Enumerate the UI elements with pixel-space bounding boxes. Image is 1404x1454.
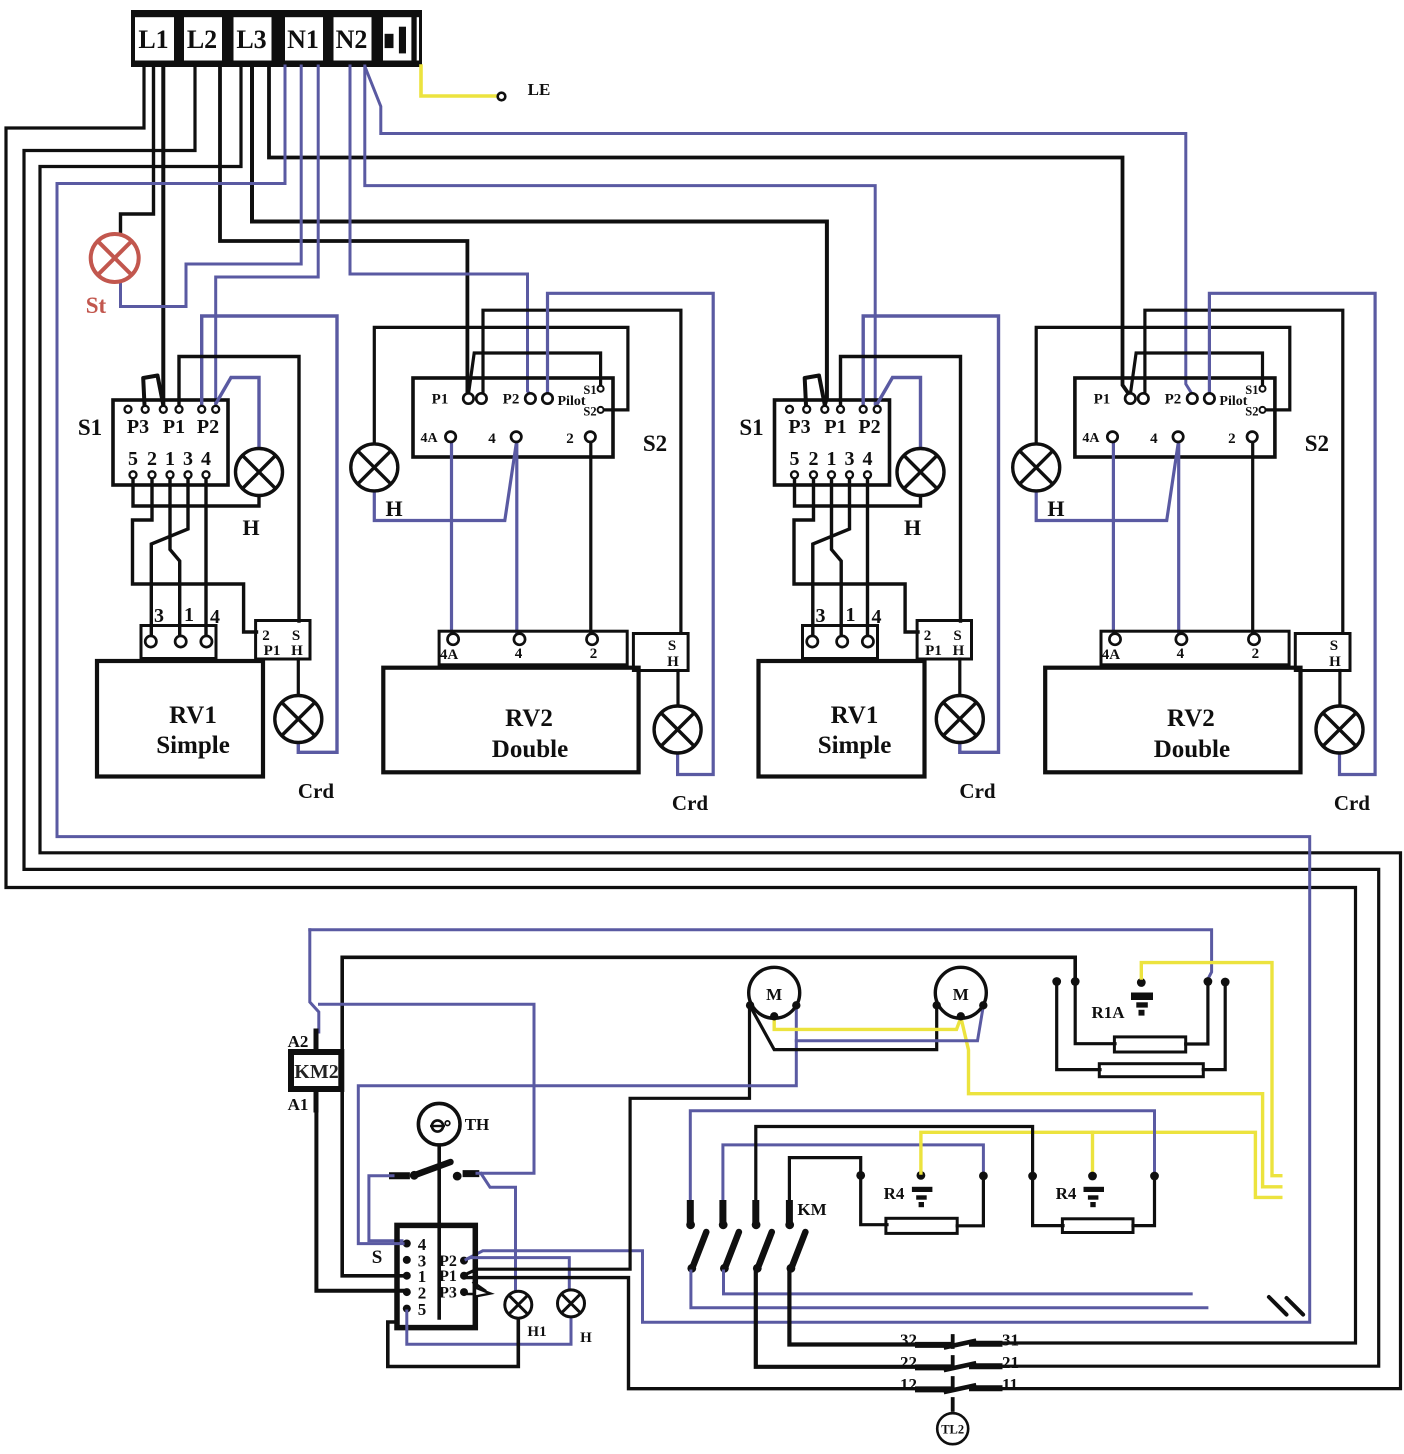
wire 4 to strip (right S2 group)	[1177, 442, 1180, 634]
svg-text:S1: S1	[78, 415, 102, 440]
svg-text:Crd: Crd	[672, 791, 708, 815]
wire S2 pin S2 to lamp H (right S2 group)	[1036, 327, 1290, 443]
wire R4 second left dot to resistor	[1033, 1179, 1063, 1226]
box S/H (left S2 group)	[633, 634, 688, 671]
strip terminal 1 (left S1 group)	[175, 636, 186, 647]
wire R1A left terminal 2 to resistor	[1075, 983, 1115, 1044]
S-box terminal 3	[403, 1256, 411, 1264]
wire TH right contact to A2 (blue)	[320, 1004, 535, 1173]
KM pole 3 fixed contact	[752, 1204, 759, 1221]
svg-text:H: H	[291, 643, 303, 659]
svg-text:S2: S2	[583, 405, 596, 419]
wire lamp H1 bottom loop	[388, 1318, 519, 1367]
terminal P2b of S1 (left S1 group)	[212, 406, 219, 413]
svg-text:4A: 4A	[440, 647, 459, 663]
wire R4 right dot to resistor	[957, 1178, 983, 1226]
wire 2 to strip (left S2 group)	[589, 442, 592, 634]
KM pole 4 lower dot	[787, 1264, 796, 1273]
wire R4 second right dot to resistor	[1133, 1179, 1155, 1226]
terminal 4 of S1 (left S1 group)	[203, 471, 210, 478]
R4 second right dot	[1150, 1172, 1159, 1181]
svg-text:M: M	[766, 985, 782, 1004]
wire L3 to second S1 P1	[252, 66, 827, 405]
svg-text:1: 1	[827, 448, 837, 470]
lamp Crd (right S1 group)	[936, 696, 983, 743]
pin S1 of S2 (right S2 group)	[1260, 386, 1266, 392]
terminal 4 of S2 (left S2 group)	[511, 432, 521, 442]
svg-text:4: 4	[488, 431, 496, 447]
motor M2 terminals	[933, 1001, 941, 1009]
svg-text:5: 5	[418, 1300, 427, 1319]
lamp H (right S1 group)	[897, 449, 944, 496]
terminal L1 cell	[135, 17, 174, 60]
terminal N1 cell	[285, 17, 323, 60]
resistor R1A lower	[1099, 1064, 1203, 1077]
switch S2 box (left S2 group)	[413, 378, 613, 457]
wire TH stem / S-box divider	[437, 1145, 441, 1318]
svg-text:P3: P3	[127, 416, 149, 438]
svg-text:S2: S2	[1245, 405, 1258, 419]
wire M2 right to M1 right (blue)	[796, 1006, 983, 1041]
svg-text:1: 1	[846, 604, 856, 626]
svg-text:3: 3	[816, 605, 826, 627]
wire KM pole1 to R4 second right (blue)	[690, 1111, 1154, 1203]
wire A2 feed (blue loop from TH switch)	[310, 930, 319, 1032]
svg-text:4A: 4A	[420, 431, 438, 446]
svg-text:Crd: Crd	[298, 779, 334, 803]
strip terminal 4A (right S2 group)	[1109, 634, 1120, 645]
R4 second ground dot	[1088, 1172, 1097, 1181]
wire L1 to S1 P1 (left)	[161, 66, 165, 404]
terminal P3b of S1 (right S1 group)	[803, 406, 810, 413]
ground symbol R4 first	[912, 1187, 933, 1192]
svg-text:Simple: Simple	[818, 732, 892, 759]
terminal 3 of S1 (left S1 group)	[185, 471, 192, 478]
motor M1 terminals	[746, 1001, 754, 1009]
connector strip 4A-4-2 (left S2 group)	[439, 631, 627, 665]
svg-text:P2: P2	[503, 392, 520, 408]
TH lever	[414, 1162, 450, 1175]
wire R1A ground to yellow stub (yellow)	[1141, 963, 1281, 1176]
svg-text:TL2: TL2	[941, 1423, 964, 1437]
svg-text:P2: P2	[858, 416, 880, 438]
svg-text:S: S	[292, 628, 300, 644]
svg-text:4: 4	[201, 448, 211, 470]
contact bar TH left	[393, 1172, 407, 1179]
svg-text:Double: Double	[1154, 736, 1230, 763]
svg-text:H: H	[242, 515, 259, 540]
svg-text:RV2: RV2	[505, 705, 553, 732]
svg-text:TH: TH	[465, 1115, 490, 1134]
KM pole 2 upper dot	[719, 1220, 728, 1229]
pin S1 of S2 (left S2 group)	[598, 386, 604, 392]
box RV2 Double (right S2 group)	[1045, 668, 1300, 773]
terminal P3b of S1 (left S1 group)	[142, 406, 149, 413]
KM pole 2 fixed contact	[719, 1204, 726, 1221]
wire terminal 1 to strip 1 (left S1 group)	[170, 478, 180, 636]
svg-text:P1: P1	[432, 392, 449, 408]
svg-text:S1: S1	[1245, 383, 1258, 397]
KM pole 4 upper dot	[785, 1220, 794, 1229]
wire N2 to second S1 P2 right	[365, 66, 875, 404]
terminal 5 of S1 (right S1 group)	[791, 471, 798, 478]
svg-text:R4: R4	[884, 1184, 905, 1203]
box 2/P1 S/H (right S1 group)	[917, 621, 971, 660]
svg-text:L1: L1	[138, 25, 168, 54]
wire N1 to S1 P2 right	[216, 66, 319, 404]
terminal P3a of S1 (left S1 group)	[125, 406, 132, 413]
box 2/P1 S/H (left S1 group)	[256, 621, 310, 660]
strip terminal 3 (right S1 group)	[807, 636, 818, 647]
R4 first ground dot	[917, 1171, 926, 1180]
terminal 4 of S2 (right S2 group)	[1173, 432, 1183, 442]
svg-text:Crd: Crd	[959, 779, 995, 803]
wire TH left contact to S-box 4 (blue)	[369, 1176, 402, 1241]
S-box terminal 5	[403, 1305, 411, 1313]
svg-text:KM2: KM2	[294, 1061, 338, 1083]
KM pole 1 lower dot	[687, 1264, 696, 1273]
wire A1 to S-box terminal 2	[316, 1108, 403, 1291]
terminal P2a of S2 (right S2 group)	[1187, 393, 1197, 403]
strip terminal 4 (left S2 group)	[514, 634, 525, 645]
wire N2 diagonal to second S2 P2	[366, 68, 1192, 394]
wire KM pole1 lower (blue stub)	[691, 1271, 1207, 1308]
break marks	[1269, 1297, 1303, 1315]
resistor R4 first	[886, 1218, 957, 1233]
svg-text:P1: P1	[925, 643, 942, 659]
wire motor M1 left to M2 left	[750, 1006, 937, 1050]
S-box terminal 2	[403, 1288, 411, 1296]
svg-text:2: 2	[1252, 646, 1260, 662]
svg-text:2: 2	[809, 448, 819, 470]
terminal A2 stub	[314, 1031, 319, 1052]
TL2 dashed link	[951, 1336, 955, 1412]
svg-text:P1: P1	[824, 416, 846, 438]
wire R4 right terminal (blue riser)	[723, 1145, 984, 1203]
strip terminal 3 (left S1 group)	[145, 636, 156, 647]
terminal P1a of S1 (left S1 group)	[160, 406, 167, 413]
svg-text:4: 4	[1150, 431, 1158, 447]
bridge link P3 to P1 (left S1 group)	[143, 376, 163, 406]
svg-text:P1: P1	[163, 416, 185, 438]
svg-text:Pilot: Pilot	[558, 394, 586, 409]
svg-text:4: 4	[863, 448, 873, 470]
terminal 5 of S1 (left S1 group)	[130, 471, 137, 478]
svg-text:3: 3	[845, 448, 855, 470]
box RV1 Simple (left S1 group)	[97, 661, 263, 777]
wire Pilot to Crd lamp (blue) (left S2 group)	[548, 293, 714, 774]
wire R1A right terminal 2 to resistor	[1203, 983, 1225, 1070]
svg-text:KM: KM	[797, 1200, 826, 1219]
contact 22/21 bars	[918, 1364, 948, 1370]
wire Pilot to Crd lamp (blue) (right S2 group)	[1209, 293, 1375, 774]
svg-text:S2: S2	[1305, 431, 1329, 456]
lamp Crd (left S2 group)	[654, 706, 701, 753]
svg-text:21: 21	[1002, 1353, 1019, 1372]
wire N2 to S2 P2 (blue)	[350, 66, 530, 395]
resistor R4 second	[1062, 1219, 1133, 1233]
pin S2 of S2 (left S2 group)	[598, 407, 604, 413]
svg-text:4: 4	[515, 646, 523, 662]
switch S1 box (right S1 group)	[775, 400, 890, 485]
wire terminal 2 to SH box (left S1 group)	[133, 478, 257, 632]
terminal 2 of S1 (right S1 group)	[810, 471, 817, 478]
wire R1A right terminal 1 to resistor	[1186, 983, 1208, 1044]
terminal 3 of S1 (right S1 group)	[846, 471, 853, 478]
svg-text:L3: L3	[236, 25, 266, 54]
terminal ground cell	[383, 17, 419, 60]
svg-text:2: 2	[147, 448, 157, 470]
wire terminal 3 to strip 3 (right S1 group)	[813, 478, 850, 636]
wire TH right contact to lamp H1 (blue)	[481, 1174, 516, 1291]
strip terminal 4A (left S2 group)	[448, 634, 459, 645]
svg-text:S1: S1	[739, 415, 763, 440]
pin S2 of S2 (right S2 group)	[1260, 407, 1266, 413]
wire KM pole4 lower to contact 32	[789, 1271, 919, 1345]
svg-text:5: 5	[790, 448, 800, 470]
wire S-box 5 to lamp H (blue)	[407, 1311, 571, 1344]
svg-text:S: S	[953, 628, 961, 644]
terminal 1 of S1 (right S1 group)	[828, 471, 835, 478]
lamp Crd (left S1 group)	[275, 696, 322, 743]
svg-text:12: 12	[900, 1375, 917, 1394]
terminal 1 of S1 (left S1 group)	[167, 471, 174, 478]
S-box terminal P2	[460, 1257, 468, 1265]
wire N1 to lamp St (blue)	[121, 66, 302, 307]
svg-text:A2: A2	[288, 1032, 309, 1051]
KM pole 2 lever	[725, 1232, 739, 1267]
terminal N2 cell	[334, 17, 372, 60]
wire 4A to strip (left S2 group)	[450, 442, 453, 634]
wire L3 to second S2 P1	[269, 66, 1129, 394]
S-box terminal P1	[460, 1272, 468, 1280]
lamp H (left S2 group)	[351, 444, 398, 491]
terminal P2b Pilot of S2 (right S2 group)	[1204, 393, 1214, 403]
svg-text:H1: H1	[527, 1324, 546, 1340]
motor M1	[749, 967, 800, 1018]
terminal P1a of S2 (left S2 group)	[463, 393, 473, 403]
svg-text:Double: Double	[492, 736, 568, 763]
R4 right dot	[979, 1172, 988, 1181]
KM pole 1 lever	[693, 1232, 707, 1267]
wire 2 to strip (right S2 group)	[1251, 442, 1254, 634]
ground symbol in terminal block	[385, 34, 394, 48]
svg-text:H: H	[580, 1330, 592, 1346]
svg-text:S2: S2	[643, 431, 667, 456]
svg-text:RV1: RV1	[169, 702, 217, 729]
terminal P1b of S1 (right S1 group)	[837, 406, 844, 413]
wire S2 pin S2 to lamp H (left S2 group)	[374, 327, 628, 443]
wire LE (yellow from terminal block)	[421, 66, 496, 96]
svg-text:2: 2	[1228, 431, 1236, 447]
wire M2 bottom to yellow stub nest	[961, 1017, 1281, 1187]
svg-text:L2: L2	[187, 25, 217, 54]
svg-text:R4: R4	[1056, 1184, 1077, 1203]
contact 12/11 bars	[918, 1386, 948, 1392]
svg-text:H: H	[1329, 654, 1341, 670]
svg-text:M: M	[953, 985, 969, 1004]
bridge link P3 to P1 (right S1 group)	[805, 376, 825, 406]
wire SH box to Crd lamp (right S2 group)	[1338, 671, 1341, 707]
wire R4 grounds to yellow stub (yellow)	[921, 1132, 1281, 1197]
terminal 4A of S2 (left S2 group)	[445, 432, 455, 442]
ground symbol R4 second	[1084, 1187, 1105, 1192]
ground symbol R1A	[1131, 993, 1153, 1001]
strip terminal 4 (right S1 group)	[862, 636, 873, 647]
wire 4 to lamp H bottom (blue) (right S2 group)	[1036, 444, 1178, 521]
lamp H1	[505, 1291, 532, 1318]
lamp Crd (right S2 group)	[1316, 706, 1363, 753]
terminal P1b of S2 (left S2 group)	[476, 393, 486, 403]
svg-text:A1: A1	[288, 1095, 309, 1114]
motor M2	[935, 967, 986, 1018]
wire S2 pin S1 to P1 (right S2 group)	[1131, 353, 1263, 391]
wire S2 pin S1 to P1 (left S2 group)	[469, 353, 601, 391]
R4 left dot	[856, 1171, 865, 1180]
wire terminal 4 to strip 4 (left S1 group)	[204, 478, 207, 636]
wire SH box to Crd lamp (left S2 group)	[676, 671, 679, 707]
svg-text:S: S	[668, 638, 676, 654]
KM pole 4 fixed contact	[786, 1204, 793, 1221]
wire terminal 4 to strip 4 (right S1 group)	[866, 478, 869, 636]
terminal 4 of S1 (right S1 group)	[864, 471, 871, 478]
wire 4 to lamp H bottom (blue) (left S2 group)	[374, 444, 516, 521]
wire R1A left terminal 1 to resistor	[1057, 983, 1100, 1070]
svg-text:P1: P1	[439, 1268, 457, 1285]
wire motor bottoms (yellow)	[774, 1017, 961, 1029]
strip terminal 4 (right S2 group)	[1176, 634, 1187, 645]
lamp H (bottom)	[558, 1290, 585, 1317]
svg-text:H: H	[904, 515, 921, 540]
box RV2 Double (left S2 group)	[383, 668, 638, 773]
svg-text:H: H	[953, 643, 965, 659]
thermostat TH symbol	[418, 1103, 460, 1145]
wire L1 to lamp St	[121, 66, 154, 237]
wire 4A to strip (right S2 group)	[1112, 442, 1115, 634]
KM pole 1 fixed contact	[687, 1204, 694, 1221]
connector strip 3-1-4 (left S1 group)	[141, 626, 216, 659]
R1A terminal dots	[1052, 977, 1061, 986]
connector strip 4A-4-2 (right S2 group)	[1101, 631, 1289, 665]
wire SH box to Crd lamp (right S1 group)	[958, 659, 961, 696]
terminal 2 of S2 (right S2 group)	[1247, 432, 1257, 442]
svg-text:P2: P2	[197, 416, 219, 438]
svg-text:P2: P2	[1165, 392, 1182, 408]
wire KM pole3 to R4 second	[756, 1127, 1033, 1204]
svg-text:N2: N2	[336, 25, 368, 54]
svg-text:RV2: RV2	[1167, 705, 1215, 732]
strip terminal 2 (left S2 group)	[587, 634, 598, 645]
KM pole 3 lower dot	[753, 1264, 762, 1273]
svg-text:S1: S1	[583, 383, 596, 397]
terminal P2a of S1 (left S1 group)	[198, 406, 205, 413]
svg-text:P3: P3	[439, 1285, 457, 1302]
wire P1 right to SH box S (right S1 group)	[841, 357, 961, 622]
contact bar TH right	[466, 1170, 476, 1177]
terminal P3a of S1 (right S1 group)	[786, 406, 793, 413]
wire terminal 3 to strip 3 (left S1 group)	[151, 478, 188, 636]
wire P1 right to SH box S (left S2 group)	[483, 310, 681, 632]
wire S-box P1 to motors (black)	[466, 1008, 750, 1275]
svg-text:22: 22	[900, 1353, 917, 1372]
wire terminal 2 to SH box (right S1 group)	[794, 478, 918, 632]
wire terminal 5 to lamp H bottom (left S1 group)	[133, 478, 259, 506]
wire terminal 1 to strip 1 (right S1 group)	[832, 478, 842, 636]
svg-text:R1A: R1A	[1091, 1003, 1125, 1022]
selector S box	[397, 1225, 475, 1327]
strip terminal 4 (left S1 group)	[201, 636, 212, 647]
strip terminal 1 (right S1 group)	[837, 636, 848, 647]
wire KM pole2 lower (blue stub)	[724, 1271, 1192, 1294]
wire R4 second ground branch (yellow)	[1091, 1132, 1094, 1172]
svg-text:H: H	[385, 496, 402, 521]
svg-text:2: 2	[262, 628, 270, 644]
svg-text:31: 31	[1002, 1331, 1019, 1350]
strip terminal 2 (right S2 group)	[1248, 634, 1259, 645]
svg-text:S: S	[372, 1247, 383, 1268]
wire S-box 4 to motors (blue)	[358, 1008, 796, 1244]
contact 32/31 bars	[918, 1342, 948, 1348]
wire A2 to R1A (blue)	[310, 930, 1212, 978]
wire Crd lamp to P2 left (blue) (right S1 group)	[863, 316, 998, 752]
wire S-box terminal 1 to R1A	[342, 957, 1075, 1276]
lamp St	[91, 234, 139, 282]
lamp H (right S2 group)	[1013, 444, 1060, 491]
svg-text:S: S	[1330, 638, 1338, 654]
KM pole 1 upper dot	[686, 1220, 695, 1229]
wire S-box P1 to contact 12	[465, 1278, 919, 1389]
terminal P2b Pilot of S2 (left S2 group)	[542, 393, 552, 403]
terminal L2 cell	[184, 17, 222, 60]
terminal 2 of S2 (left S2 group)	[585, 432, 595, 442]
TH pivot dot	[410, 1171, 419, 1180]
svg-text:RV1: RV1	[831, 702, 879, 729]
wire P1 right to SH box S (right S2 group)	[1145, 310, 1343, 632]
svg-text:Simple: Simple	[156, 732, 230, 759]
wire 4 to strip (left S2 group)	[515, 442, 518, 634]
wire P2 to lamp H (blue) (left S1 group)	[216, 378, 259, 449]
svg-text:2: 2	[566, 431, 574, 447]
wire N1 big blue loop (left feeder to S-box P2)	[57, 66, 1310, 1322]
svg-text:3: 3	[154, 605, 164, 627]
terminal P1b of S2 (right S2 group)	[1138, 393, 1148, 403]
svg-text:1: 1	[165, 448, 175, 470]
terminal block body	[131, 10, 422, 67]
R1A ground dot	[1137, 978, 1146, 987]
wire P1 right to SH box S (left S1 group)	[179, 357, 299, 622]
wire Crd lamp to P2 left (blue) (left S1 group)	[202, 316, 337, 752]
svg-text:1: 1	[184, 604, 194, 626]
wire L2 to S2 P1 (left)	[220, 66, 467, 393]
S-box terminal 4	[403, 1240, 411, 1248]
wire KM pole4 to R4 resistor	[789, 1158, 887, 1225]
box S/H (right S2 group)	[1295, 634, 1350, 671]
wire terminal 5 to lamp H bottom (right S1 group)	[795, 478, 921, 506]
S-box terminal P3	[460, 1288, 468, 1296]
terminal P1a of S1 (right S1 group)	[821, 406, 828, 413]
switch S2 box (right S2 group)	[1075, 378, 1275, 457]
KM pole 3 lever	[758, 1232, 772, 1267]
contactor coil KM2	[291, 1052, 341, 1089]
svg-text:St: St	[86, 293, 107, 318]
terminal L3 cell	[234, 17, 272, 60]
svg-text:2: 2	[924, 628, 932, 644]
terminal P1b of S1 (left S1 group)	[176, 406, 183, 413]
svg-text:3: 3	[183, 448, 193, 470]
svg-text:P1: P1	[264, 643, 281, 659]
KM pole 2 lower dot	[720, 1264, 729, 1273]
terminal 4A of S2 (right S2 group)	[1107, 432, 1117, 442]
